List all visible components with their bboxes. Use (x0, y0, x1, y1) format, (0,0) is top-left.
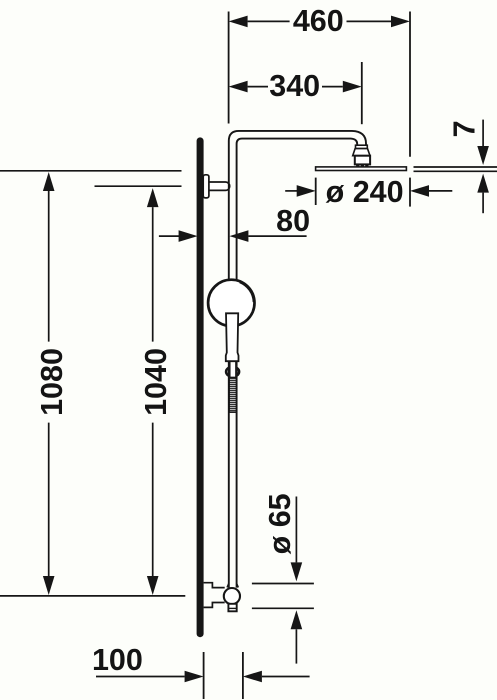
svg-text:340: 340 (269, 69, 320, 103)
svg-text:7: 7 (448, 120, 482, 137)
svg-text:80: 80 (276, 204, 310, 238)
svg-text:100: 100 (92, 643, 143, 677)
svg-text:460: 460 (293, 4, 344, 38)
svg-text:ø 240: ø 240 (326, 175, 404, 209)
svg-text:1040: 1040 (139, 348, 173, 416)
svg-text:ø 65: ø 65 (263, 493, 297, 554)
svg-text:1080: 1080 (35, 348, 69, 416)
